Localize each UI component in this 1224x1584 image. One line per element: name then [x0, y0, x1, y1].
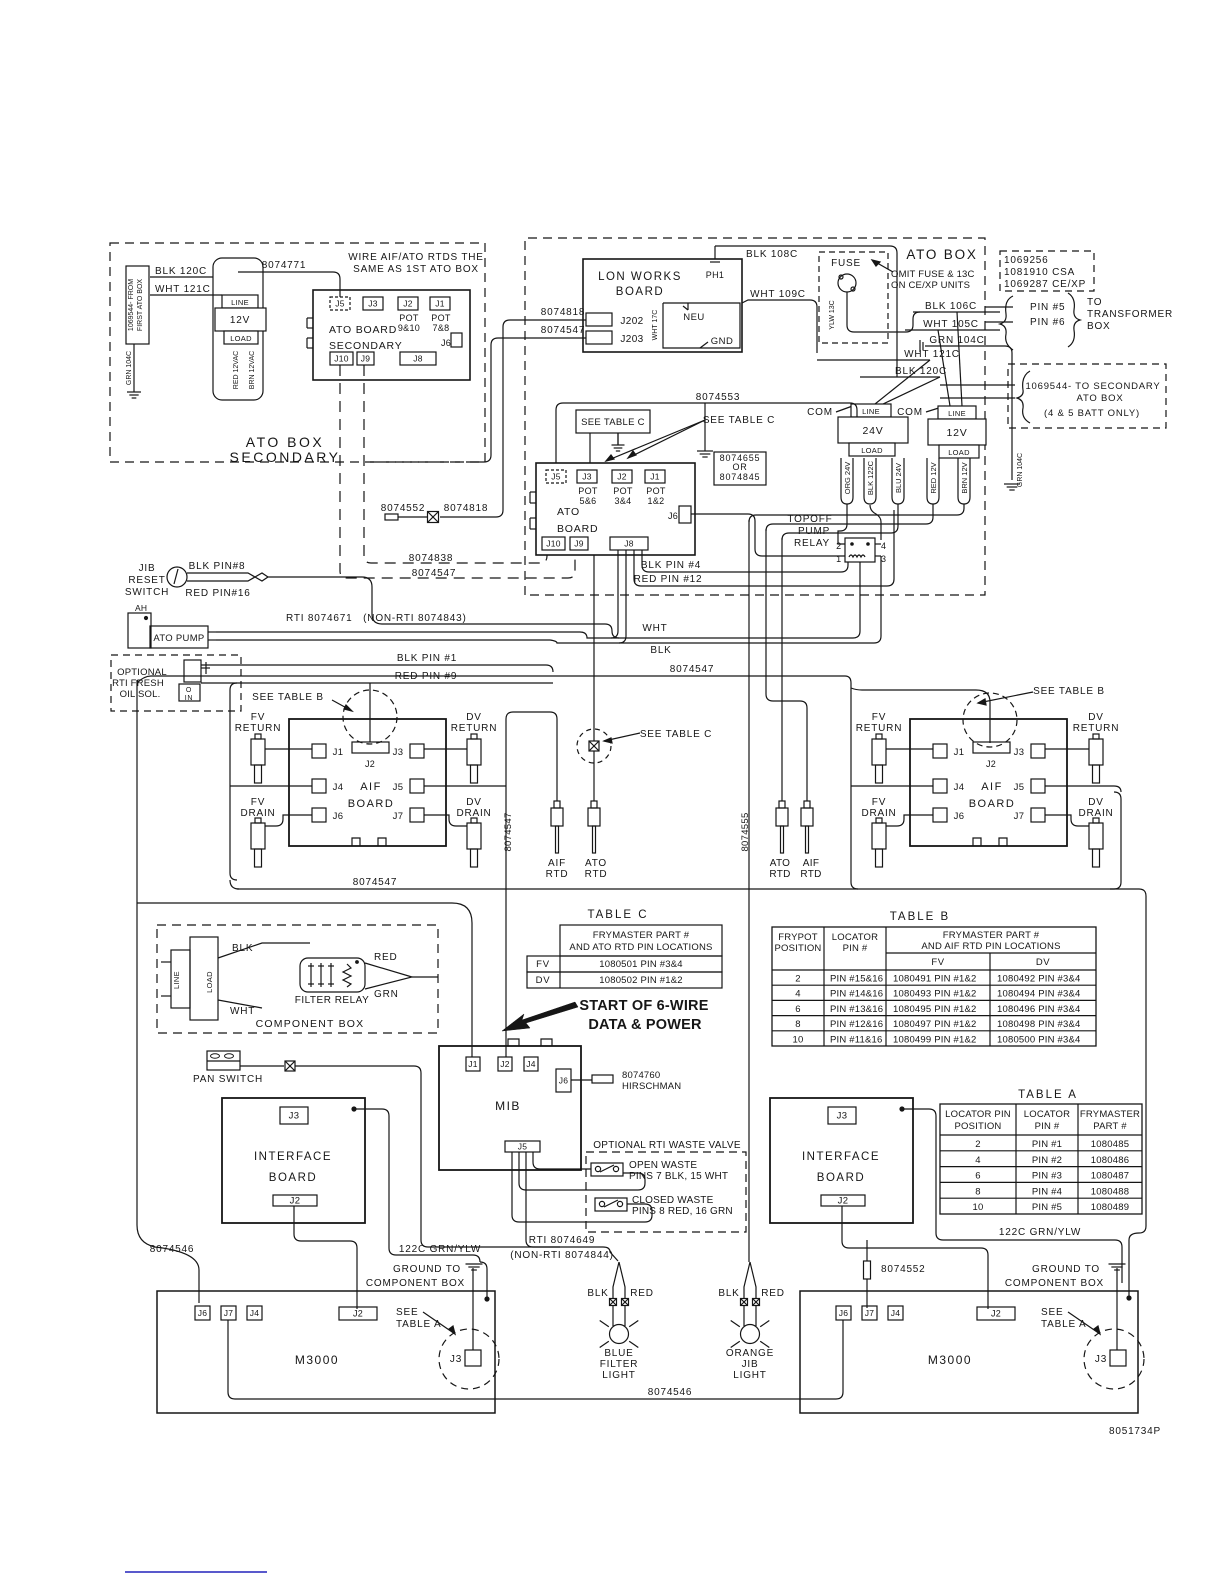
svg-text:J5: J5 — [518, 1142, 528, 1152]
svg-text:1080489: 1080489 — [1091, 1202, 1129, 1213]
svg-text:BLK PIN #4: BLK PIN #4 — [641, 560, 701, 571]
svg-text:PIN #14&16: PIN #14&16 — [830, 989, 883, 1000]
svg-text:POSITION: POSITION — [955, 1121, 1002, 1132]
svg-text:FRYMASTER PART #: FRYMASTER PART # — [593, 930, 690, 941]
svg-text:BLK 106C: BLK 106C — [925, 301, 977, 312]
svg-text:DRAIN: DRAIN — [1078, 808, 1113, 819]
svg-text:J7: J7 — [393, 811, 404, 822]
svg-text:RESET: RESET — [128, 575, 165, 586]
svg-text:INTERFACE: INTERFACE — [802, 1151, 880, 1163]
svg-text:8074818: 8074818 — [444, 503, 489, 514]
svg-text:POT: POT — [613, 486, 633, 496]
svg-text:8074555: 8074555 — [740, 812, 751, 851]
svg-text:RELAY: RELAY — [794, 538, 830, 549]
svg-text:J7: J7 — [865, 1308, 875, 1318]
svg-text:GRN: GRN — [374, 989, 399, 1000]
svg-text:BOARD: BOARD — [817, 1172, 865, 1184]
svg-text:COMPONENT BOX: COMPONENT BOX — [256, 1018, 365, 1030]
svg-text:1081910 CSA: 1081910 CSA — [1004, 267, 1075, 278]
svg-text:PIN #6: PIN #6 — [1030, 317, 1065, 328]
svg-text:RETURN: RETURN — [856, 723, 902, 734]
svg-text:BLK 122C: BLK 122C — [866, 460, 875, 495]
svg-text:24V: 24V — [862, 425, 883, 437]
svg-text:O: O — [186, 687, 192, 694]
svg-text:RTD: RTD — [800, 869, 821, 880]
svg-text:PIN #1: PIN #1 — [1032, 1139, 1062, 1150]
svg-text:J1: J1 — [333, 747, 344, 758]
svg-text:SAME AS 1ST ATO BOX: SAME AS 1ST ATO BOX — [353, 264, 479, 275]
svg-text:J9: J9 — [574, 539, 584, 549]
svg-text:RED: RED — [374, 952, 398, 963]
svg-text:FV: FV — [931, 957, 944, 968]
svg-text:RED: RED — [761, 1288, 785, 1299]
svg-text:PIN #4: PIN #4 — [1032, 1186, 1062, 1197]
svg-text:J2: J2 — [403, 299, 413, 309]
svg-text:J4: J4 — [333, 782, 344, 793]
svg-text:AIF: AIF — [360, 781, 382, 793]
svg-text:MIB: MIB — [495, 1099, 521, 1113]
svg-text:PIN #2: PIN #2 — [1032, 1155, 1062, 1166]
svg-text:GROUND TO: GROUND TO — [1032, 1264, 1100, 1275]
svg-text:J8: J8 — [624, 539, 634, 549]
svg-text:8: 8 — [975, 1186, 980, 1197]
svg-text:RETURN: RETURN — [451, 723, 497, 734]
svg-text:JIB: JIB — [742, 1359, 759, 1370]
svg-text:PINS 7 BLK, 15 WHT: PINS 7 BLK, 15 WHT — [629, 1171, 728, 1182]
svg-text:BRN 12VAC: BRN 12VAC — [249, 351, 256, 389]
svg-text:J1: J1 — [954, 747, 965, 758]
svg-text:J3: J3 — [450, 1354, 462, 1365]
svg-text:WHT 17C: WHT 17C — [652, 310, 659, 341]
svg-text:LOCATOR: LOCATOR — [1024, 1109, 1070, 1120]
svg-text:J203: J203 — [620, 334, 643, 345]
svg-text:BOX: BOX — [1087, 321, 1111, 332]
svg-text:J2: J2 — [617, 472, 627, 482]
svg-text:10: 10 — [973, 1202, 984, 1213]
svg-text:OPEN WASTE: OPEN WASTE — [629, 1160, 697, 1171]
svg-text:1080488: 1080488 — [1091, 1186, 1129, 1197]
svg-text:M3000: M3000 — [295, 1353, 339, 1367]
svg-text:AND AIF RTD PIN LOCATIONS: AND AIF RTD PIN LOCATIONS — [921, 941, 1060, 952]
svg-text:6: 6 — [795, 1004, 800, 1015]
svg-text:1080499 PIN #1&2: 1080499 PIN #1&2 — [893, 1034, 977, 1045]
svg-text:1080500 PIN #3&4: 1080500 PIN #3&4 — [997, 1034, 1081, 1045]
svg-text:FILTER RELAY: FILTER RELAY — [295, 995, 370, 1006]
svg-text:1069544- FROM: 1069544- FROM — [128, 279, 135, 331]
svg-text:SEE: SEE — [396, 1307, 418, 1318]
svg-text:1069287 CE/XP: 1069287 CE/XP — [1004, 279, 1086, 290]
svg-text:122C GRN/YLW: 122C GRN/YLW — [399, 1244, 481, 1255]
svg-text:BOARD: BOARD — [348, 798, 395, 810]
svg-text:PIN #5: PIN #5 — [1030, 302, 1065, 313]
svg-text:LIGHT: LIGHT — [733, 1370, 766, 1381]
svg-text:J2: J2 — [365, 759, 375, 769]
svg-text:WHT: WHT — [230, 1006, 255, 1017]
svg-text:COMPONENT BOX: COMPONENT BOX — [366, 1278, 465, 1289]
svg-text:FIRST ATO BOX: FIRST ATO BOX — [137, 279, 144, 331]
svg-text:YLW 13C: YLW 13C — [829, 300, 836, 329]
svg-text:SEE TABLE C: SEE TABLE C — [581, 417, 645, 428]
svg-text:FRYPOT: FRYPOT — [778, 932, 818, 943]
svg-text:ORANGE: ORANGE — [726, 1348, 774, 1359]
svg-text:(4 & 5 BATT ONLY): (4 & 5 BATT ONLY) — [1044, 408, 1140, 419]
svg-text:J3: J3 — [393, 747, 404, 758]
svg-text:7&8: 7&8 — [433, 323, 450, 333]
svg-text:SEE TABLE B: SEE TABLE B — [1033, 686, 1105, 697]
svg-text:PIN #11&16: PIN #11&16 — [830, 1034, 883, 1045]
svg-text:POT: POT — [578, 486, 598, 496]
svg-text:PH1: PH1 — [706, 270, 724, 280]
svg-text:1080497 PIN #1&2: 1080497 PIN #1&2 — [893, 1019, 977, 1030]
svg-text:1080485: 1080485 — [1091, 1139, 1129, 1150]
svg-text:8074546: 8074546 — [150, 1244, 195, 1255]
svg-text:TABLE B: TABLE B — [890, 911, 950, 923]
svg-text:8074552: 8074552 — [381, 503, 426, 514]
svg-text:SECONDARY: SECONDARY — [230, 449, 341, 465]
svg-text:FRYMASTER PART #: FRYMASTER PART # — [943, 930, 1040, 941]
svg-text:POSITION: POSITION — [775, 943, 822, 954]
svg-text:OPTIONAL RTI WASTE VALVE: OPTIONAL RTI WASTE VALVE — [593, 1140, 741, 1151]
svg-text:IN: IN — [185, 695, 194, 702]
svg-text:START OF 6-WIRE: START OF 6-WIRE — [579, 998, 708, 1014]
svg-text:ATO: ATO — [557, 506, 580, 518]
svg-text:WIRE AIF/ATO RTDS THE: WIRE AIF/ATO RTDS THE — [348, 252, 484, 263]
svg-text:HIRSCHMAN: HIRSCHMAN — [622, 1081, 681, 1092]
svg-text:J3: J3 — [837, 1111, 848, 1122]
svg-text:TO: TO — [1087, 297, 1102, 308]
svg-text:1080492 PIN #3&4: 1080492 PIN #3&4 — [997, 974, 1081, 985]
svg-text:J5: J5 — [335, 299, 345, 309]
svg-text:8074547: 8074547 — [503, 812, 514, 851]
svg-text:BRN 12V: BRN 12V — [960, 462, 969, 493]
svg-text:SECONDARY: SECONDARY — [329, 340, 403, 352]
svg-text:RED: RED — [630, 1288, 654, 1299]
svg-text:1069256: 1069256 — [1004, 255, 1049, 266]
svg-text:J4: J4 — [954, 782, 965, 793]
svg-text:8074547: 8074547 — [353, 877, 398, 888]
svg-text:COMPONENT BOX: COMPONENT BOX — [1005, 1278, 1104, 1289]
svg-text:8074546: 8074546 — [648, 1387, 693, 1398]
svg-text:1080491 PIN #1&2: 1080491 PIN #1&2 — [893, 974, 977, 985]
svg-text:2: 2 — [795, 974, 800, 985]
svg-text:1080486: 1080486 — [1091, 1155, 1129, 1166]
svg-text:J4: J4 — [250, 1308, 260, 1318]
svg-text:8074547: 8074547 — [541, 325, 586, 336]
svg-text:DV: DV — [1036, 957, 1050, 968]
svg-text:J1: J1 — [435, 299, 445, 309]
svg-text:1080498 PIN #3&4: 1080498 PIN #3&4 — [997, 1019, 1081, 1030]
svg-text:PUMP: PUMP — [798, 526, 830, 537]
svg-text:BLK 120C: BLK 120C — [155, 266, 207, 277]
svg-text:DRAIN: DRAIN — [456, 808, 491, 819]
svg-text:POT: POT — [431, 313, 451, 323]
svg-text:J2: J2 — [290, 1196, 301, 1207]
svg-text:COM: COM — [807, 407, 833, 418]
svg-text:PINS 8 RED, 16 GRN: PINS 8 RED, 16 GRN — [632, 1206, 733, 1217]
svg-text:12V: 12V — [946, 427, 967, 439]
svg-text:BOARD: BOARD — [616, 286, 664, 298]
svg-text:BOARD: BOARD — [557, 523, 598, 535]
svg-text:BLK: BLK — [718, 1288, 739, 1299]
svg-text:8074553: 8074553 — [696, 392, 741, 403]
svg-text:J2: J2 — [991, 1309, 1001, 1319]
svg-text:J5: J5 — [1014, 782, 1025, 793]
svg-text:GROUND TO: GROUND TO — [393, 1264, 461, 1275]
svg-text:RTI 8074671 (NON-RTI 8074843: RTI 8074671 (NON-RTI 8074843) — [286, 613, 467, 624]
svg-text:PAN SWITCH: PAN SWITCH — [193, 1074, 263, 1085]
svg-text:4: 4 — [881, 541, 887, 551]
svg-text:PIN #: PIN # — [1035, 1121, 1060, 1132]
svg-text:10: 10 — [793, 1034, 804, 1045]
svg-text:WHT 121C: WHT 121C — [904, 349, 960, 360]
svg-text:CLOSED WASTE: CLOSED WASTE — [632, 1195, 714, 1206]
svg-text:BLU 24V: BLU 24V — [894, 463, 903, 493]
svg-text:1&2: 1&2 — [648, 496, 665, 506]
svg-text:J10: J10 — [334, 354, 349, 364]
svg-text:BLK: BLK — [587, 1288, 608, 1299]
svg-text:DV: DV — [1088, 712, 1104, 723]
svg-text:8074818: 8074818 — [541, 307, 586, 318]
svg-text:1080495 PIN #1&2: 1080495 PIN #1&2 — [893, 1004, 977, 1015]
svg-text:LON WORKS: LON WORKS — [598, 271, 682, 283]
svg-text:J3: J3 — [1014, 747, 1025, 758]
svg-text:ATO BOX: ATO BOX — [906, 247, 977, 262]
svg-text:J6: J6 — [668, 511, 678, 521]
svg-text:2: 2 — [836, 541, 842, 551]
svg-text:RTI 8074649: RTI 8074649 — [529, 1235, 595, 1246]
svg-text:FV: FV — [872, 797, 886, 808]
svg-text:RTD: RTD — [585, 869, 608, 880]
svg-text:3&4: 3&4 — [615, 496, 632, 506]
svg-text:J4: J4 — [526, 1059, 536, 1069]
svg-text:RED PIN#16: RED PIN#16 — [185, 588, 250, 599]
svg-text:1080502 PIN #1&2: 1080502 PIN #1&2 — [599, 975, 683, 986]
svg-text:GRN 104C: GRN 104C — [1017, 453, 1024, 487]
svg-text:LOCATOR PIN: LOCATOR PIN — [945, 1109, 1011, 1120]
svg-text:BLK PIN#8: BLK PIN#8 — [189, 561, 246, 572]
svg-text:J2: J2 — [500, 1059, 510, 1069]
svg-text:FV: FV — [251, 712, 265, 723]
svg-text:BOARD: BOARD — [969, 798, 1016, 810]
svg-text:AIF: AIF — [548, 858, 566, 869]
svg-text:DV: DV — [1088, 797, 1104, 808]
svg-text:8074547: 8074547 — [412, 568, 457, 579]
svg-text:RTD: RTD — [769, 869, 790, 880]
svg-text:POT: POT — [399, 313, 419, 323]
svg-text:ORG 24V: ORG 24V — [843, 462, 852, 495]
svg-text:J5: J5 — [551, 472, 561, 482]
svg-text:FRYMASTER: FRYMASTER — [1080, 1109, 1140, 1120]
svg-text:J9: J9 — [361, 354, 371, 364]
svg-text:FUSE: FUSE — [831, 258, 861, 269]
svg-text:PIN #12&16: PIN #12&16 — [830, 1019, 883, 1030]
svg-text:M3000: M3000 — [928, 1353, 972, 1367]
svg-text:WHT 121C: WHT 121C — [155, 284, 211, 295]
svg-text:J2: J2 — [838, 1196, 849, 1207]
svg-text:ATO: ATO — [585, 858, 607, 869]
svg-text:SEE: SEE — [1041, 1307, 1063, 1318]
svg-text:J1: J1 — [468, 1059, 478, 1069]
svg-text:4: 4 — [975, 1155, 980, 1166]
svg-text:AIF: AIF — [981, 781, 1003, 793]
svg-text:WHT 109C: WHT 109C — [750, 289, 806, 300]
svg-text:LOAD: LOAD — [948, 448, 970, 457]
svg-text:BLK 108C: BLK 108C — [746, 249, 798, 260]
svg-text:8074838: 8074838 — [409, 553, 454, 564]
svg-text:J2: J2 — [353, 1309, 363, 1319]
svg-text:BLUE: BLUE — [604, 1348, 633, 1359]
svg-text:LOAD: LOAD — [205, 971, 214, 993]
svg-text:DRAIN: DRAIN — [240, 808, 275, 819]
svg-text:FV: FV — [251, 797, 265, 808]
svg-text:8074760: 8074760 — [622, 1070, 660, 1081]
svg-text:122C GRN/YLW: 122C GRN/YLW — [999, 1227, 1081, 1238]
svg-text:NEU: NEU — [683, 312, 705, 323]
svg-text:J3: J3 — [289, 1111, 300, 1122]
svg-text:LINE: LINE — [231, 298, 249, 307]
svg-text:DV: DV — [466, 712, 482, 723]
svg-text:FV: FV — [536, 959, 550, 970]
svg-text:OIL SOL.: OIL SOL. — [120, 689, 161, 700]
svg-text:J6: J6 — [839, 1308, 849, 1318]
svg-text:POT: POT — [646, 486, 666, 496]
svg-text:12V: 12V — [230, 315, 250, 326]
svg-text:TOPOFF: TOPOFF — [787, 514, 832, 525]
svg-text:PIN #13&16: PIN #13&16 — [830, 1004, 883, 1015]
svg-text:1080501 PIN #3&4: 1080501 PIN #3&4 — [599, 959, 683, 970]
svg-text:COM: COM — [897, 407, 923, 418]
svg-text:1080487: 1080487 — [1091, 1171, 1129, 1182]
svg-text:LINE: LINE — [948, 409, 966, 418]
svg-text:6: 6 — [975, 1171, 980, 1182]
svg-text:1069544- TO SECONDARY: 1069544- TO SECONDARY — [1025, 381, 1160, 392]
svg-text:TRANSFORMER: TRANSFORMER — [1087, 309, 1173, 320]
svg-text:LOAD: LOAD — [230, 334, 252, 343]
svg-text:8051734P: 8051734P — [1109, 1426, 1161, 1437]
svg-text:TABLE A: TABLE A — [1018, 1089, 1078, 1101]
svg-text:J3: J3 — [582, 472, 592, 482]
svg-text:ATO BOARD: ATO BOARD — [329, 324, 397, 336]
svg-text:1080493 PIN #1&2: 1080493 PIN #1&2 — [893, 989, 977, 1000]
svg-text:TABLE C: TABLE C — [587, 909, 648, 921]
svg-text:DV: DV — [536, 975, 551, 986]
svg-text:RETURN: RETURN — [1073, 723, 1119, 734]
svg-text:ATO: ATO — [770, 858, 791, 869]
svg-text:FILTER: FILTER — [600, 1359, 639, 1370]
svg-text:J7: J7 — [1014, 811, 1025, 822]
svg-text:GND: GND — [711, 336, 734, 347]
svg-text:ATO PUMP: ATO PUMP — [153, 633, 204, 644]
svg-text:OR: OR — [732, 462, 747, 472]
svg-text:2: 2 — [975, 1139, 980, 1150]
svg-text:PIN #15&16: PIN #15&16 — [830, 974, 883, 985]
svg-text:J3: J3 — [1095, 1354, 1107, 1365]
svg-text:PIN #3: PIN #3 — [1032, 1171, 1062, 1182]
svg-text:OMIT FUSE & 13C: OMIT FUSE & 13C — [891, 269, 975, 280]
svg-text:BLK PIN #1: BLK PIN #1 — [397, 653, 457, 664]
svg-text:ATO BOX: ATO BOX — [1077, 393, 1124, 404]
svg-text:J5: J5 — [393, 782, 404, 793]
svg-text:SEE TABLE B: SEE TABLE B — [252, 692, 324, 703]
svg-text:5&6: 5&6 — [580, 496, 597, 506]
svg-text:GRN 104C: GRN 104C — [929, 335, 984, 346]
svg-text:J7: J7 — [224, 1308, 234, 1318]
svg-text:RED 12V: RED 12V — [929, 462, 938, 493]
svg-text:ATO BOX: ATO BOX — [246, 434, 324, 450]
svg-text:LINE: LINE — [172, 971, 181, 989]
svg-text:PIN #: PIN # — [843, 943, 868, 954]
svg-text:FV: FV — [872, 712, 886, 723]
svg-text:J3: J3 — [368, 299, 378, 309]
svg-text:SEE TABLE C: SEE TABLE C — [703, 415, 775, 426]
svg-text:DRAIN: DRAIN — [861, 808, 896, 819]
svg-text:RTD: RTD — [546, 869, 569, 880]
svg-text:J1: J1 — [650, 472, 660, 482]
svg-text:DATA & POWER: DATA & POWER — [588, 1017, 702, 1033]
svg-text:AND ATO RTD PIN LOCATIONS: AND ATO RTD PIN LOCATIONS — [569, 942, 712, 953]
svg-text:J6: J6 — [559, 1076, 569, 1086]
svg-text:J202: J202 — [620, 316, 643, 327]
svg-text:AIF: AIF — [803, 858, 819, 869]
svg-text:SWITCH: SWITCH — [125, 587, 169, 598]
svg-text:RETURN: RETURN — [235, 723, 281, 734]
svg-text:RED 12VAC: RED 12VAC — [233, 351, 240, 389]
svg-text:DV: DV — [466, 797, 482, 808]
svg-text:ON CE/XP UNITS: ON CE/XP UNITS — [891, 280, 970, 291]
svg-text:LOCATOR: LOCATOR — [832, 932, 878, 943]
svg-text:LOAD: LOAD — [861, 446, 883, 455]
svg-text:AH: AH — [135, 603, 147, 613]
svg-text:GRN 104C: GRN 104C — [126, 351, 133, 385]
svg-text:J4: J4 — [891, 1308, 901, 1318]
svg-text:(NON-RTI 8074844): (NON-RTI 8074844) — [510, 1250, 613, 1261]
svg-text:BLK: BLK — [650, 645, 671, 656]
svg-text:WHT 105C: WHT 105C — [923, 319, 979, 330]
svg-text:8074552: 8074552 — [881, 1264, 926, 1275]
svg-text:J6: J6 — [198, 1308, 208, 1318]
svg-text:RTI FRESH: RTI FRESH — [112, 678, 164, 689]
svg-text:J8: J8 — [413, 354, 423, 364]
svg-text:3: 3 — [881, 554, 887, 564]
svg-text:PART #: PART # — [1093, 1121, 1127, 1132]
svg-text:INTERFACE: INTERFACE — [254, 1151, 332, 1163]
svg-text:WHT: WHT — [642, 623, 667, 634]
svg-text:JIB: JIB — [139, 563, 156, 574]
svg-text:J10: J10 — [546, 539, 561, 549]
svg-text:1080496 PIN #3&4: 1080496 PIN #3&4 — [997, 1004, 1081, 1015]
svg-text:RED PIN #12: RED PIN #12 — [634, 574, 703, 585]
svg-text:LINE: LINE — [862, 407, 880, 416]
svg-text:J2: J2 — [986, 759, 996, 769]
svg-text:SEE TABLE C: SEE TABLE C — [640, 729, 712, 740]
svg-text:8074845: 8074845 — [720, 472, 761, 482]
svg-text:8074771: 8074771 — [262, 260, 307, 271]
svg-text:BOARD: BOARD — [269, 1172, 317, 1184]
svg-text:8: 8 — [795, 1019, 800, 1030]
svg-text:9&10: 9&10 — [398, 323, 420, 333]
svg-text:8074547: 8074547 — [670, 664, 715, 675]
svg-text:4: 4 — [795, 989, 800, 1000]
svg-text:LIGHT: LIGHT — [602, 1370, 635, 1381]
svg-text:1080494 PIN #3&4: 1080494 PIN #3&4 — [997, 989, 1081, 1000]
svg-text:PIN #5: PIN #5 — [1032, 1202, 1062, 1213]
svg-text:J6: J6 — [333, 811, 344, 822]
svg-text:J6: J6 — [954, 811, 965, 822]
svg-text:J6: J6 — [441, 338, 451, 348]
